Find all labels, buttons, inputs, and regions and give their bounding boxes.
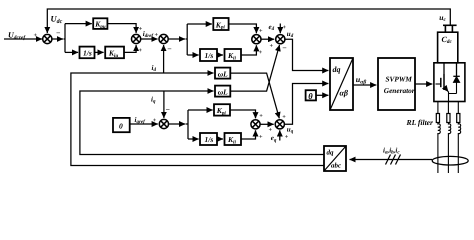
svg-text:id: id [152, 64, 157, 73]
svg-text:uq: uq [287, 126, 294, 135]
wire eq input into Sq3 [279, 130, 281, 140]
svg-text:Generator: Generator [384, 86, 415, 95]
node iqref label [135, 116, 147, 125]
svg-text:θ: θ [308, 91, 313, 101]
node ud label [287, 30, 294, 39]
wire Kiu output into S2 [124, 45, 136, 52]
wire ed input into S5 [279, 24, 281, 34]
svg-text:RL filter: RL filter [406, 118, 435, 127]
wire branch vertical current q PI [186, 110, 188, 139]
wire Udcref input [4, 38, 42, 40]
svg-text:Kii: Kii [227, 51, 236, 61]
svg-text:Kpi: Kpi [215, 20, 226, 30]
summing junction S2 [132, 34, 141, 43]
sign plus S5 left [270, 43, 274, 50]
wire into 1/s voltage [65, 51, 78, 53]
summing junction S4 [252, 35, 261, 44]
wire wL1 diagonal down into Sq3 [230, 73, 279, 118]
resistor Rb [447, 114, 450, 123]
diode D1 triangle [453, 77, 460, 83]
svg-text:0: 0 [119, 121, 123, 130]
node idref label [143, 30, 155, 39]
svg-text:iqref: iqref [135, 116, 147, 125]
sign minus S5 bottom [282, 44, 287, 52]
node uq label [287, 126, 294, 135]
svg-text:1/s: 1/s [205, 135, 214, 144]
sign plus Sq3 bottom [285, 134, 289, 141]
converter bridge box [434, 63, 465, 102]
block dq abc transform [324, 146, 346, 171]
resistor Ra [436, 114, 439, 123]
svg-text:uc: uc [439, 13, 446, 23]
svg-text:Kiu: Kiu [108, 49, 118, 59]
svg-text:+: + [139, 47, 143, 54]
sign plus S4 top [259, 28, 263, 35]
svg-text:uαβ: uαβ [356, 75, 367, 85]
sign plus Sq2 top [259, 112, 263, 119]
wire Kpi d output into S4 [229, 24, 257, 33]
sign plus Sq3 top [282, 114, 286, 121]
diode D1 cathode bar [453, 75, 460, 77]
node iq label [151, 96, 156, 105]
svg-text:ud: ud [287, 30, 294, 39]
wire theta to dq block [316, 94, 328, 96]
wire Sq2 to Sq3 [260, 123, 274, 125]
wire emitter to output [449, 92, 457, 102]
svg-text:αβ: αβ [340, 89, 349, 98]
svg-text:dq: dq [327, 149, 335, 157]
wire Kpu output into S2 [107, 24, 136, 33]
svg-text:Cdc: Cdc [442, 35, 453, 45]
block wL2 [215, 86, 230, 97]
transistor Q1 IGBT gate lead [436, 83, 441, 85]
sign plus Sq1 left [153, 117, 157, 124]
wire into Kpi d [187, 23, 212, 25]
svg-text:+: + [259, 28, 263, 35]
svg-text:–: – [282, 44, 287, 52]
wire ualphabeta dq to SVPWM [353, 84, 376, 86]
sign plus S1 [34, 32, 38, 39]
svg-text:iq: iq [151, 96, 156, 105]
wire S4 to S5 [261, 38, 274, 40]
node uc label [439, 13, 446, 23]
wire id row from dq abc feedback [71, 73, 324, 166]
svg-text:SVPWM: SVPWM [386, 74, 413, 83]
svg-text:+: + [269, 127, 273, 134]
node id label [152, 64, 157, 73]
svg-text:Udcref: Udcref [8, 31, 26, 41]
sign minus S1 [56, 29, 61, 37]
block dq to alphabeta transform [330, 58, 353, 110]
svg-text:dq: dq [333, 65, 341, 74]
summing junction S1 [43, 34, 52, 43]
node Cdc label [442, 35, 453, 45]
svg-text:ωL: ωL [218, 70, 228, 79]
three-phase slashes [386, 155, 401, 165]
capacitor Cdc body box [438, 32, 458, 63]
wire branch vertical current d PI [186, 24, 188, 55]
wire iabc measurement line [350, 159, 433, 161]
wire Udc feedback bus from capacitor to S1 [47, 9, 450, 33]
wire into Kpi q [188, 109, 213, 111]
resistor Rc [457, 114, 460, 123]
svg-text:1/s: 1/s [83, 49, 92, 58]
summing junction Sq1 [159, 119, 168, 128]
node iabc label [383, 147, 400, 156]
wire S2 to S3 with idref label [141, 38, 158, 40]
block 1/s q [200, 133, 217, 145]
summing junction Sq2 [251, 120, 260, 129]
sign plus S4 bottom [259, 49, 263, 56]
svg-text:–: – [56, 29, 61, 37]
svg-text:Kii: Kii [227, 135, 236, 145]
svg-text:+: + [155, 31, 159, 38]
svg-text:ωL: ωL [218, 88, 228, 97]
wire iq row from dq abc feedback [80, 91, 324, 155]
wire phase leg b [447, 102, 449, 114]
inductor La [438, 123, 440, 174]
sign plus S5 ed [283, 24, 287, 31]
svg-text:+: + [259, 134, 263, 141]
wire Sq3 output uq to dq block [284, 84, 328, 125]
transistor Q1 IGBT emitter arrow [444, 87, 448, 92]
sign plus S3 left [155, 31, 159, 38]
block SVPWM generator [378, 58, 415, 110]
diode D1 lead bottom [456, 83, 458, 94]
wire wL2 diagonal up into S5 [230, 45, 279, 91]
wire S5 output ud to dq block [285, 39, 329, 70]
wire into 1/s d [187, 54, 198, 56]
block zero reference [113, 118, 130, 132]
wire Kpi q output into Sq2 [230, 110, 256, 118]
node ed label [269, 23, 275, 32]
wire into Kpu [65, 23, 92, 25]
summing junction S5 [276, 35, 285, 44]
wire phase leg a [437, 102, 439, 114]
block wL1 [215, 68, 230, 79]
wire zero to Sq1 with iqref label [130, 123, 158, 125]
node ualphabeta label [356, 75, 367, 85]
svg-text:+: + [259, 112, 263, 119]
wire Kii q output into Sq2 [241, 130, 256, 139]
block Kii d [225, 49, 242, 61]
svg-text:ia,ib,ic: ia,ib,ic [383, 147, 400, 156]
capacitor Cdc plate leads [445, 25, 452, 32]
wire 1/s d to Kii d [217, 54, 223, 56]
node RL filter label [406, 118, 435, 127]
block theta [306, 90, 316, 100]
block 1/s voltage [80, 47, 95, 59]
block Kpi q [214, 104, 230, 115]
wire iq branch down into Sq1 [163, 91, 165, 118]
svg-text:+: + [259, 49, 263, 56]
svg-text:–: – [167, 45, 172, 53]
block Kpu [93, 18, 107, 29]
svg-text:1/s: 1/s [205, 51, 214, 60]
sign minus S3 bottom [167, 45, 172, 53]
sign plus Sq2 bottom [259, 134, 263, 141]
wire into 1/s q [188, 138, 199, 140]
svg-text:ed: ed [269, 23, 275, 32]
capacitor Cdc top plate bar [443, 24, 457, 26]
block Kiu [105, 47, 124, 59]
wire S3 output to branch [168, 38, 185, 40]
summing junction Sq3 [275, 120, 284, 129]
summing junction S3 [159, 34, 168, 43]
sign plus S2 bottom [139, 47, 143, 54]
svg-text:+: + [153, 117, 157, 124]
svg-text:+: + [282, 114, 286, 121]
svg-text:–: – [165, 105, 170, 113]
wire SVPWM to inverter [415, 83, 432, 85]
svg-text:+: + [34, 32, 38, 39]
svg-text:eq: eq [271, 134, 277, 143]
block Kpi d [213, 18, 228, 30]
svg-text:+: + [270, 43, 274, 50]
svg-text:Udc: Udc [51, 14, 63, 26]
svg-text:abc: abc [331, 162, 341, 170]
block Kii q [225, 133, 242, 145]
wire 1/s to Kiu [95, 51, 104, 53]
inductor Lb [448, 123, 450, 174]
svg-text:+: + [285, 134, 289, 141]
wire 1/s q to Kii q [217, 138, 223, 140]
inductor Lc [458, 123, 460, 174]
wire Kii d output into S4 [241, 45, 256, 55]
svg-text:idref: idref [143, 30, 155, 39]
block 1/s d [200, 49, 217, 61]
wire id branch up into S3 [163, 45, 165, 73]
diode D1 lead top [456, 63, 458, 77]
node eq label [271, 134, 277, 143]
svg-text:Kpi: Kpi [216, 106, 227, 116]
wire S1 output to branch [52, 38, 63, 40]
transistor Q1 IGBT body bar [443, 74, 445, 90]
sign plus S2 top [139, 26, 143, 33]
transistor Q1 IGBT gate bar [440, 78, 442, 87]
transistor Q1 IGBT collector lead [443, 63, 445, 74]
wire branch vertical voltage PI [64, 24, 66, 53]
sign plus Sq3 left [269, 127, 273, 134]
svg-text:Kpu: Kpu [94, 20, 106, 30]
wire phase leg c [457, 102, 459, 114]
node Udcref label [8, 31, 26, 41]
grid ellipse [432, 156, 468, 165]
wire Sq1 output to branch [169, 123, 186, 125]
node Udc label [51, 14, 63, 26]
sign minus Sq1 top [165, 105, 170, 113]
